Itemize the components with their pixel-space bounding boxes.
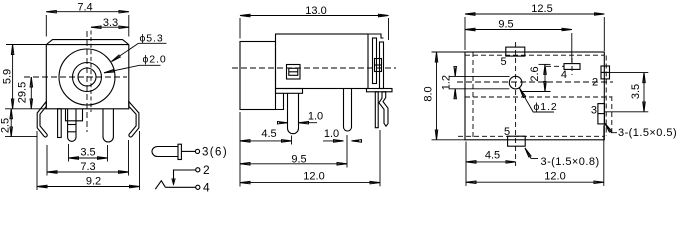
svg-text:12.0: 12.0 [544, 171, 565, 183]
left view body [46, 40, 129, 109]
svg-text:9.5: 9.5 [498, 18, 513, 30]
center pin [68, 109, 76, 142]
svg-text:7.3: 7.3 [80, 161, 95, 173]
svg-text:2.5: 2.5 [0, 118, 12, 133]
rear plate A [373, 38, 377, 84]
svg-text:13.0: 13.0 [305, 5, 326, 17]
barrel block [240, 42, 276, 110]
dimension 4.5 right [465, 142, 467, 186]
dimension 12.0 middle [379, 130, 381, 186]
dimension 8.0 [432, 51, 466, 53]
dimension 1.0 right pin [323, 140, 344, 142]
dimension 3.5 [68, 144, 70, 162]
dimension 3.5 right [610, 72, 649, 74]
svg-text:2.6: 2.6 [529, 66, 541, 81]
svg-text:ϕ5.3: ϕ5.3 [140, 32, 164, 44]
rear flange top [368, 34, 384, 38]
rear lower plate [375, 92, 378, 128]
center pin T-bar [276, 89, 303, 94]
right pin [103, 109, 113, 142]
bottom step [276, 93, 284, 109]
pad 4 [564, 64, 580, 70]
dimension 2.5 [5, 136, 37, 138]
dimension 7.4 [45, 15, 47, 37]
dimension 7.3 [46, 145, 48, 176]
svg-text:1.0: 1.0 [324, 128, 339, 140]
dashed vertical right pads [605, 56, 607, 137]
svg-text:2: 2 [203, 163, 210, 177]
dimension 9.5 middle [346, 135, 348, 168]
svg-text:4.5: 4.5 [485, 149, 500, 161]
hidden slot line [90, 31, 92, 113]
dimension 12.5 [464, 17, 466, 50]
svg-text:5: 5 [500, 56, 506, 68]
rear plate B [380, 42, 384, 89]
pad 5 top [506, 47, 525, 56]
middle circle [73, 63, 102, 92]
dimension 9.2 [36, 131, 38, 190]
dimension 12.0 right [603, 126, 605, 186]
middle centerline [232, 67, 396, 69]
svg-text:1.0: 1.0 [308, 110, 323, 122]
svg-text:7.4: 7.4 [77, 1, 92, 13]
vertical centerline [86, 31, 88, 132]
dashed vertical pad4 [571, 58, 573, 75]
terminal 4 [196, 185, 200, 189]
dimension 1.0 left pin [299, 122, 318, 124]
rear hook leg [379, 92, 388, 126]
svg-text:3.5: 3.5 [630, 84, 642, 99]
right pin [344, 89, 352, 132]
dashed row y97 [465, 96, 611, 98]
svg-text:12.5: 12.5 [531, 3, 552, 15]
center pin [288, 93, 299, 133]
label 3-(1.5x0.5) [605, 123, 617, 133]
side lug [287, 65, 301, 80]
svg-text:2: 2 [592, 77, 598, 89]
svg-text:9.5: 9.5 [291, 153, 306, 165]
pad 3 [598, 104, 605, 124]
pad 2 [601, 66, 610, 79]
svg-text:29.5: 29.5 [16, 82, 28, 103]
dimension 3.3 [91, 26, 129, 28]
label phi1.2 [520, 88, 555, 112]
svg-text:3(6): 3(6) [202, 147, 228, 159]
svg-text:3-(1.5×0.5): 3-(1.5×0.5) [618, 127, 677, 139]
horizontal centerline [24, 76, 127, 78]
svg-text:3.5: 3.5 [80, 147, 95, 159]
dashed vertical pad column [515, 42, 517, 166]
dimension 13.0 [239, 18, 241, 39]
dimension 1.2 [450, 75, 510, 77]
dimension 29.5 [30, 77, 32, 109]
plug symbol [152, 147, 178, 157]
top view outline [465, 52, 604, 140]
center hole circle [509, 76, 522, 89]
dimension 5.9 [6, 44, 46, 46]
svg-text:1.2: 1.2 [441, 75, 453, 90]
svg-text:9.2: 9.2 [86, 175, 101, 187]
left leg [37, 102, 47, 137]
dimension 2.6 [539, 63, 551, 65]
terminal 2 [196, 168, 200, 172]
main body block [276, 34, 369, 89]
dashed vertical left inner [472, 52, 474, 140]
slot [66, 109, 83, 121]
outer circle phi5.3 [59, 49, 115, 105]
label 3-(1.5x0.8) [525, 148, 538, 158]
svg-text:4: 4 [561, 69, 567, 81]
svg-text:3.3: 3.3 [103, 17, 118, 29]
dimension 4.5 middle [239, 112, 241, 187]
svg-text:5.9: 5.9 [2, 69, 14, 84]
dimension 9.5 right [571, 33, 573, 63]
pad 5 bottom [508, 136, 526, 146]
svg-text:3-(1.5×0.8): 3-(1.5×0.8) [541, 156, 600, 168]
dashed row pad4 [546, 65, 564, 67]
svg-text:12.0: 12.0 [303, 171, 324, 183]
dashed centerline right view [457, 81, 613, 83]
svg-text:5: 5 [504, 126, 510, 138]
svg-text:ϕ2.0: ϕ2.0 [143, 54, 167, 66]
rear terminal detail [375, 59, 382, 72]
inner circle phi2.0 [78, 68, 96, 86]
svg-text:4: 4 [203, 180, 210, 194]
spring contact [155, 181, 165, 190]
svg-text:4.5: 4.5 [261, 128, 276, 140]
svg-text:3: 3 [591, 104, 597, 116]
svg-text:ϕ1.2: ϕ1.2 [534, 101, 558, 113]
terminal 3(6) [181, 150, 195, 152]
rear bottom flange [367, 89, 393, 92]
right leg [129, 102, 139, 137]
svg-text:8.0: 8.0 [422, 86, 434, 101]
body lid line [46, 44, 129, 46]
dashed top inner [465, 54, 604, 56]
dashed row bottom [458, 135, 604, 137]
flat pin [58, 109, 62, 138]
